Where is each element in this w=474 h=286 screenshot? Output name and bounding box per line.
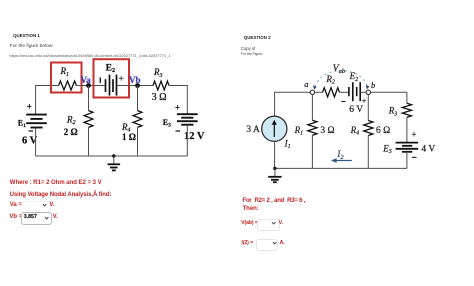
node a (open): [310, 90, 314, 94]
svg-text:I1: I1: [284, 138, 291, 150]
wire right branch upper: [406, 92, 408, 103]
svg-text:6 V: 6 V: [349, 105, 363, 115]
wire R2 branch upper: [88, 86, 90, 111]
resistor R4: [133, 111, 142, 128]
wire R3 to top-right corner: [169, 85, 187, 87]
wire R4 branch upper: [367, 95, 369, 121]
ground node dot: [273, 167, 276, 170]
wire left side upper: [35, 85, 37, 114]
ground: [268, 168, 281, 182]
dashed arc Vab: [315, 71, 367, 87]
svg-text:Vb: Vb: [129, 75, 141, 85]
svg-text:+: +: [27, 101, 32, 111]
svg-text:4 V: 4 V: [421, 144, 435, 154]
svg-text:R3: R3: [388, 106, 398, 118]
svg-text:E3: E3: [382, 143, 392, 155]
battery E1: [26, 115, 47, 128]
E2 minus sign: [341, 101, 345, 103]
wire right branch lower: [406, 152, 408, 169]
svg-text:6 Ω: 6 Ω: [376, 126, 390, 136]
wire top left segment: [275, 91, 311, 93]
wire R4 branch lower: [137, 127, 139, 156]
wire left branch upper: [274, 92, 276, 117]
wire b to top-right corner: [371, 91, 407, 93]
svg-text:R1: R1: [294, 125, 304, 137]
ground: [108, 156, 121, 170]
arc arrowhead at b: [366, 85, 370, 89]
wire bottom: [36, 155, 188, 157]
svg-text:b: b: [371, 80, 375, 90]
wire R4 branch upper: [137, 86, 139, 111]
svg-text:E1: E1: [18, 118, 26, 128]
wire right side lower: [186, 125, 188, 156]
svg-text:+: +: [175, 103, 180, 113]
svg-text:1 Ω: 1 Ω: [122, 132, 136, 142]
battery E3: [396, 143, 419, 152]
arc arrowhead at a: [313, 85, 317, 89]
battery E2: [349, 82, 360, 101]
svg-text:3 Ω: 3 Ω: [152, 92, 167, 103]
resistor R3: [402, 103, 411, 117]
node Vb: [135, 83, 140, 88]
svg-text:R2: R2: [66, 114, 76, 126]
svg-text:E3: E3: [163, 118, 171, 129]
current source I1: [262, 116, 287, 141]
E2 minus tick: [99, 77, 101, 83]
svg-text:a: a: [304, 79, 308, 89]
wire R1 branch lower: [311, 135, 313, 168]
resistor R4: [364, 121, 373, 136]
svg-text:R3: R3: [153, 67, 163, 79]
battery E2: [106, 75, 117, 96]
resistor R1: [59, 81, 77, 90]
wire top-left segment: [36, 85, 59, 87]
battery E3: [177, 114, 198, 125]
svg-text:Va: Va: [81, 75, 92, 85]
svg-text:I2: I2: [336, 150, 344, 161]
wire E2 to b: [360, 91, 366, 93]
resistor R2: [84, 111, 93, 128]
wire R1 to E2: [76, 85, 105, 87]
E1 minus sign: [29, 130, 34, 132]
svg-text:2 Ω: 2 Ω: [64, 127, 78, 137]
ground node dot: [112, 154, 115, 157]
wire E2 to R3: [117, 85, 154, 87]
node Va: [86, 83, 91, 88]
svg-text:Vab: Vab: [333, 64, 346, 75]
svg-text:3 Ω: 3 Ω: [320, 126, 334, 136]
red highlight box around E2: [94, 59, 130, 97]
resistor R3: [153, 81, 169, 90]
current arrow I2: [331, 158, 352, 163]
svg-text:E2: E2: [106, 64, 115, 75]
svg-text:R4: R4: [350, 125, 360, 137]
svg-text:E2: E2: [349, 71, 359, 83]
svg-text:3 A: 3 A: [246, 125, 260, 135]
wire R2 to E2: [340, 91, 349, 93]
resistor R2: [323, 88, 340, 97]
wire R4 branch lower: [367, 136, 369, 169]
node b (open): [366, 90, 370, 94]
svg-text:+: +: [411, 130, 416, 140]
wire right side upper: [186, 85, 188, 114]
E3 minus sign: [412, 156, 417, 158]
resistor R1: [308, 120, 317, 135]
svg-text:R2: R2: [325, 74, 335, 86]
wire left branch lower: [274, 141, 276, 168]
wire R1 branch upper: [311, 95, 313, 121]
svg-text:R1: R1: [60, 66, 70, 78]
wire bottom: [275, 167, 407, 169]
E3 minus sign: [176, 130, 181, 132]
svg-text:+: +: [119, 74, 124, 84]
wire R2 branch lower: [88, 127, 90, 156]
wire R3 to E3: [406, 117, 408, 142]
wire left side lower: [35, 128, 37, 157]
wire a to R2: [315, 91, 323, 93]
red highlight box around R1: [51, 63, 82, 93]
